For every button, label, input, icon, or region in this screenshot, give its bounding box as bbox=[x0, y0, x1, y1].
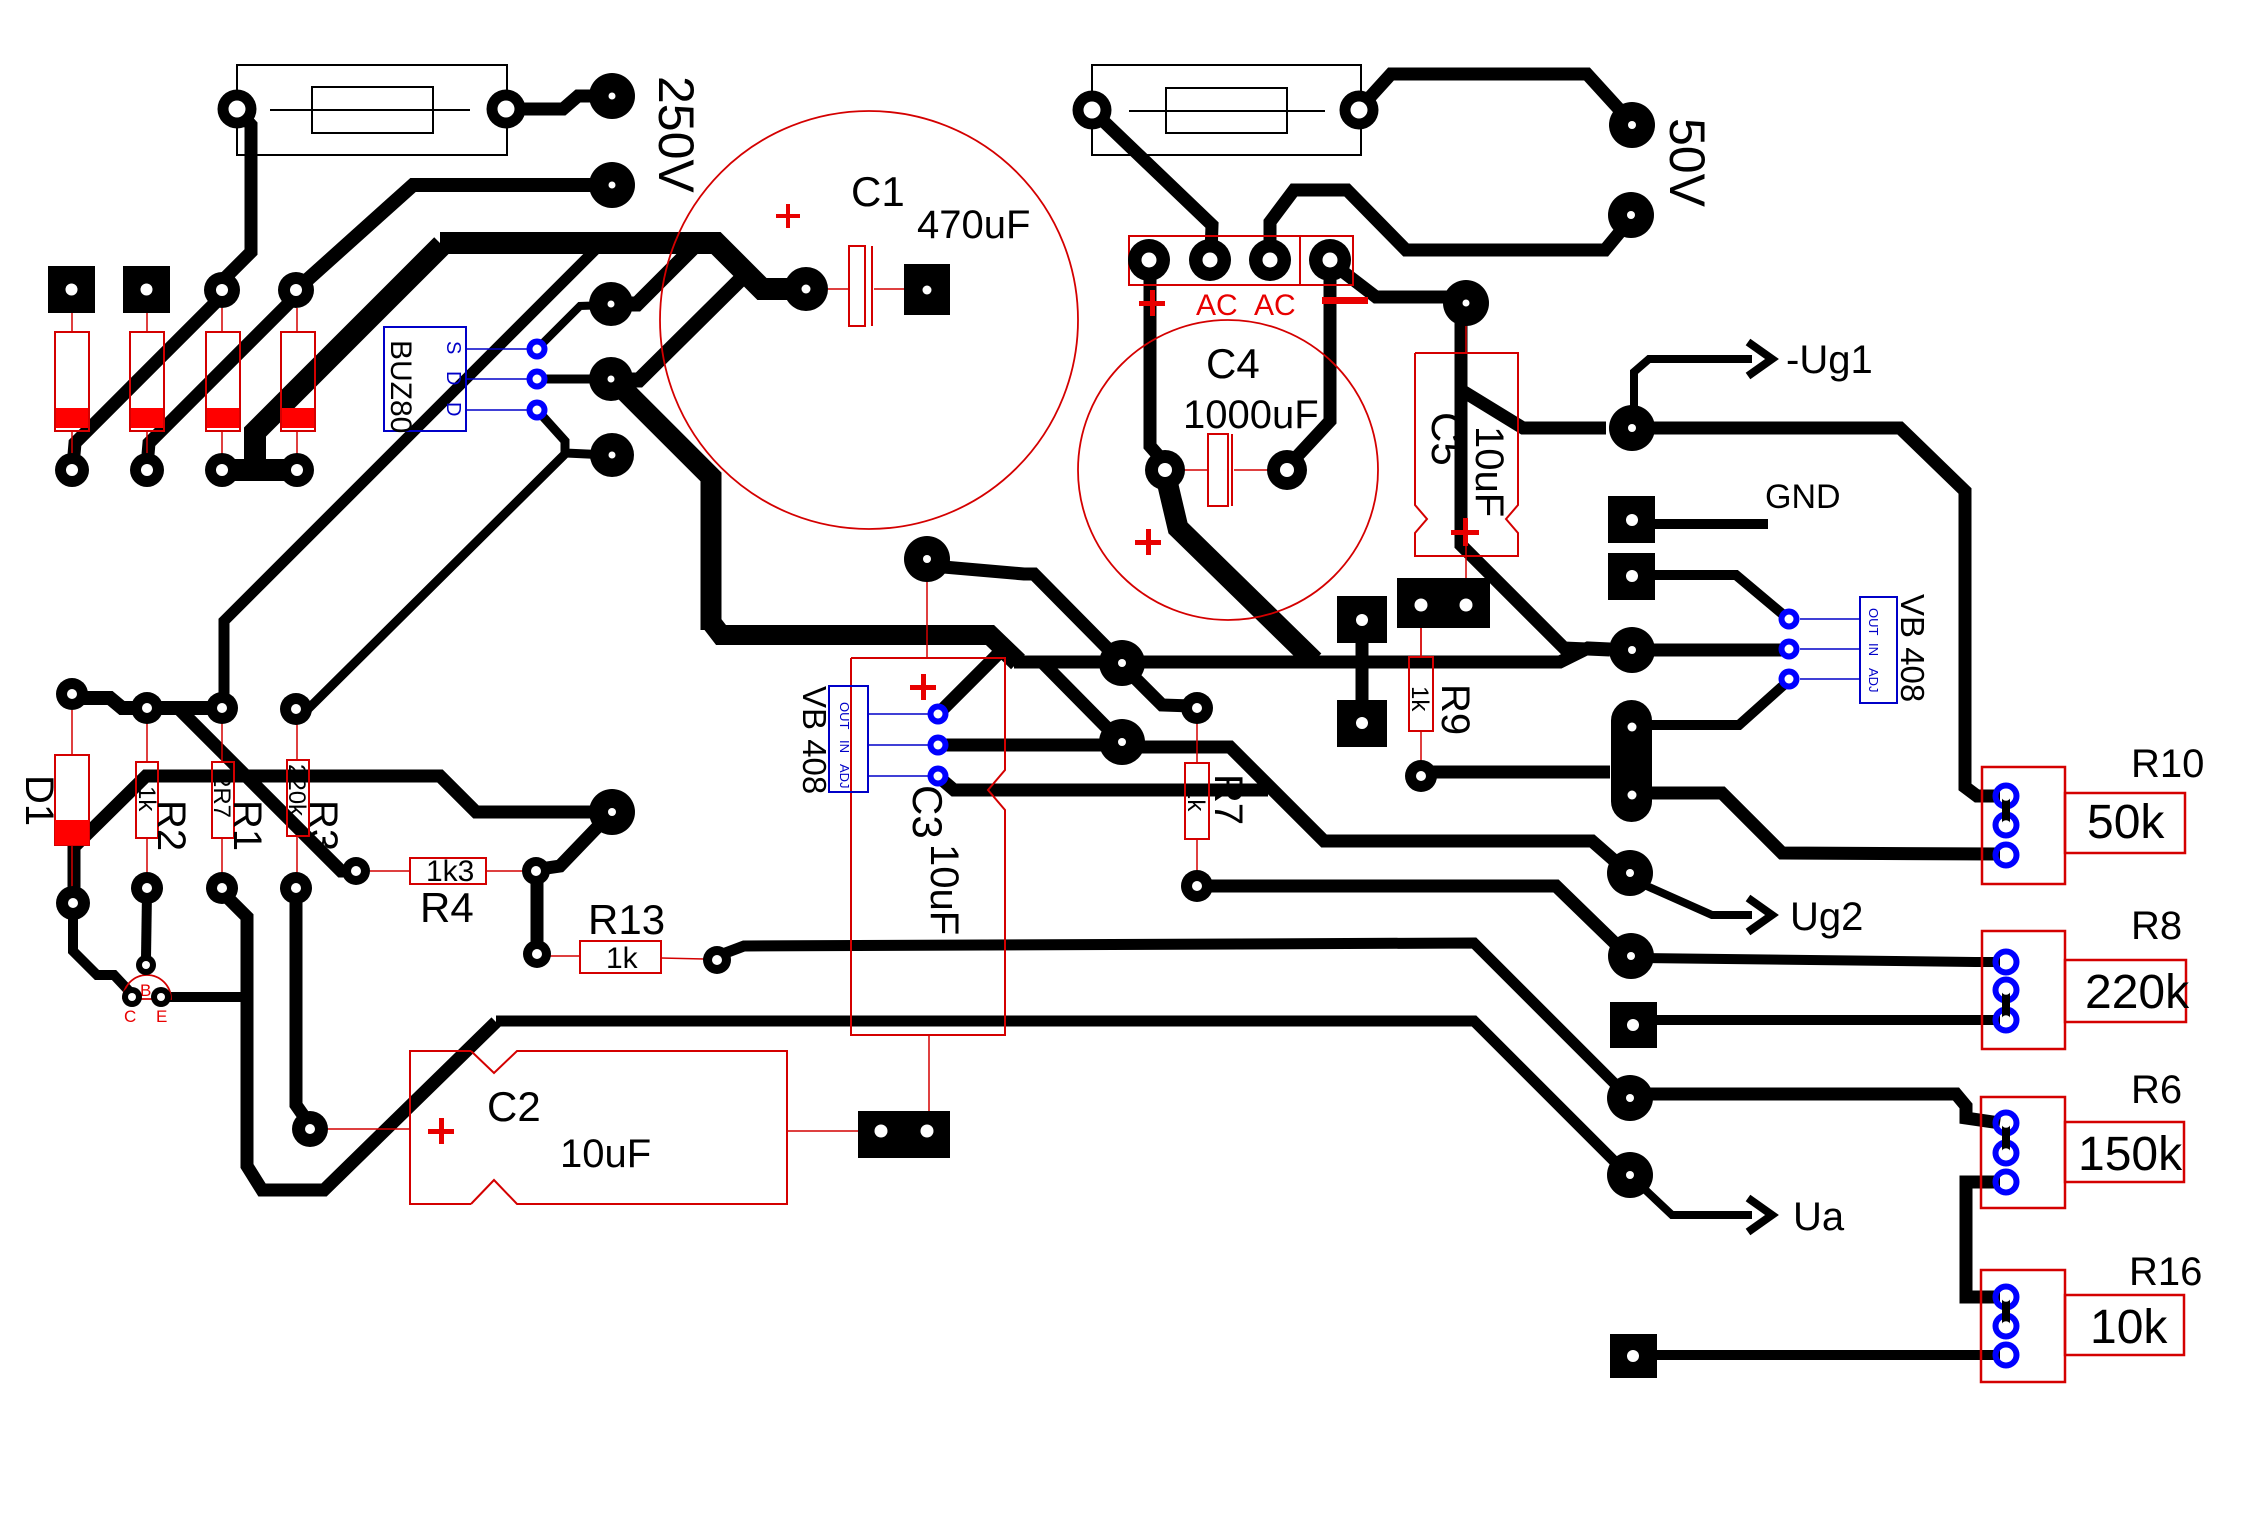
svg-text:R16: R16 bbox=[2129, 1250, 2202, 1294]
pad 1630,1098 bbox=[1607, 1075, 1653, 1121]
ring pad 296,290 bbox=[278, 272, 314, 308]
R8 link ring2-ring3 bbox=[2002, 990, 2010, 1020]
resistor R13 outline bbox=[580, 941, 661, 973]
pad R3 top bbox=[280, 693, 312, 725]
R10 rings bbox=[1996, 786, 2017, 807]
capacitor C2 outline bbox=[410, 1051, 471, 1204]
VB408 right ring OUT bbox=[1779, 609, 1800, 630]
wire pad 612,185 to ring 296,290 bbox=[296, 185, 606, 290]
wire R4 left diagonal to pad row bbox=[180, 710, 352, 871]
svg-text:S: S bbox=[442, 341, 464, 354]
VB408 right box bbox=[1860, 597, 1897, 703]
plus C5 bbox=[1451, 518, 1479, 546]
wire GND stub bbox=[1655, 519, 1768, 529]
wire pad 1466,303 down to pad 1632,650 chain bbox=[1461, 322, 1610, 650]
pad row D1 top bbox=[56, 678, 88, 710]
svg-text:C4: C4 bbox=[1206, 340, 1260, 387]
svg-text:AC: AC bbox=[1196, 289, 1238, 322]
svg-text:1k: 1k bbox=[1406, 686, 1433, 712]
pad 1122,663 bbox=[1099, 640, 1145, 686]
wire AC pad2 from fuse2 bbox=[1097, 115, 1212, 254]
wire ADJ stub to Ug2 diagonal bbox=[940, 778, 1268, 790]
square pad S2 bbox=[123, 266, 170, 313]
svg-text:R4: R4 bbox=[420, 884, 474, 931]
svg-text:Ua: Ua bbox=[1793, 1195, 1845, 1239]
svg-text:250V: 250V bbox=[648, 76, 704, 193]
R4 left pad bbox=[342, 857, 370, 885]
R8 value box bbox=[2065, 960, 2186, 1022]
resistor R7 outline bbox=[1185, 763, 1209, 839]
pad 1631,956 bbox=[1608, 933, 1654, 979]
BUZ80 ring D bbox=[527, 369, 548, 390]
capacitor C1 symbol bbox=[849, 246, 865, 326]
R10 link ring1-ring2 bbox=[2002, 796, 2010, 825]
wire transistor E to R1 vertical bbox=[165, 992, 244, 1002]
GND square 1 bbox=[1608, 496, 1655, 543]
C1 right square pad bbox=[904, 264, 950, 315]
pad 250V top bbox=[589, 73, 635, 119]
wire BUZ80 G stub bbox=[538, 411, 608, 455]
svg-text:IN: IN bbox=[837, 740, 852, 753]
fuse F2 right ring pad bbox=[1340, 91, 1379, 130]
pad 612,812 bbox=[589, 789, 635, 835]
pad 250V second bbox=[589, 162, 635, 208]
wire R4 right to R13 left bbox=[531, 878, 544, 946]
R16 body box bbox=[1981, 1270, 2065, 1382]
pad drain net 611,304 bbox=[589, 282, 633, 326]
R16 rings bbox=[1996, 1287, 2017, 1308]
wire AC pad4 to C4 right bbox=[1290, 266, 1330, 464]
wire branch to -Ug1 pad 1632,428 bbox=[1461, 390, 1606, 428]
svg-text:IN: IN bbox=[1866, 643, 1881, 656]
capacitor C5 outline bbox=[1415, 353, 1518, 556]
pad 1632,650 bbox=[1609, 627, 1655, 673]
AC pad 1 bbox=[1128, 239, 1170, 281]
resistor bottom pad 147,470 bbox=[130, 453, 164, 487]
diode D1 outline bbox=[55, 755, 89, 845]
pad R1 top bbox=[206, 692, 238, 724]
capacitor C4 outline circle bbox=[1078, 320, 1378, 620]
wire Ua arrow bbox=[1638, 1183, 1752, 1215]
R6 value box bbox=[2065, 1122, 2184, 1182]
BUZ80 pin lines bbox=[466, 349, 527, 410]
svg-text:220k: 220k bbox=[283, 764, 310, 817]
wire pad 1632,428 to R10 ring1 bbox=[1638, 428, 2000, 796]
svg-text:1k: 1k bbox=[1182, 786, 1209, 812]
wire resistor bar pads 222-297 bbox=[222, 459, 297, 481]
svg-text:OUT: OUT bbox=[1866, 608, 1881, 636]
resistor bottom pad 222,470 bbox=[205, 453, 239, 487]
wire Ug2 chain pad 1122,745 to pad 1630,873 bbox=[1126, 747, 1624, 869]
resistor R2 outline bbox=[136, 762, 158, 838]
resistor R1 outline bbox=[212, 762, 234, 838]
fuse F1 outline bbox=[237, 65, 507, 155]
wire oval top to ADJ ring bbox=[1638, 683, 1786, 725]
wire thick segment of vertical x711 bbox=[616, 382, 711, 630]
wire R9 pad to oval bbox=[1425, 766, 1610, 779]
C4 right pad bbox=[1267, 450, 1307, 490]
svg-text:C2: C2 bbox=[487, 1083, 541, 1130]
R16 value box bbox=[2065, 1295, 2184, 1355]
wire transistor B vertical bbox=[146, 892, 147, 958]
wire ring 296,290 to resistor pad 147,470 bbox=[147, 292, 296, 466]
GND square 2 bbox=[1608, 553, 1655, 600]
wire fuse1 left pad to ring pad bbox=[222, 113, 251, 292]
svg-text:C5: C5 bbox=[1423, 412, 1470, 466]
wire fuse2 right to 50V pad1 bbox=[1361, 74, 1628, 119]
capacitor C3 outline bbox=[851, 658, 1005, 1035]
svg-text:1k3: 1k3 bbox=[426, 855, 474, 888]
wire Ua horizontal to pad 1630,1175 bbox=[496, 1021, 1626, 1173]
R9 square pad lower bbox=[1337, 700, 1387, 747]
wire branch V to pad 611,379 bbox=[613, 272, 748, 380]
capacitor C1 outline circle bbox=[660, 111, 1078, 529]
wire R13 right to pad 1630,1098 bbox=[720, 943, 1626, 1095]
R7 top pad bbox=[1181, 692, 1213, 724]
svg-text:Ug2: Ug2 bbox=[1790, 895, 1863, 939]
wire GND square2 to VB408-right OUT bbox=[1655, 575, 1786, 617]
svg-text:E: E bbox=[156, 1007, 167, 1026]
wire IN ring horizontal to pad 1122,745 bbox=[941, 739, 1114, 752]
pad R2 top bbox=[131, 692, 163, 724]
wire R1 bottom U-shape bbox=[222, 892, 496, 1190]
capacitor C4 symbol bbox=[1208, 434, 1228, 506]
arrowhead -Ug1 bbox=[1748, 342, 1772, 376]
VB408 right ring ADJ bbox=[1779, 669, 1800, 690]
resistor RX1 outline bbox=[55, 332, 89, 431]
svg-text:1k: 1k bbox=[606, 942, 639, 975]
pad 611,379 bbox=[589, 357, 633, 401]
pad 1122,742 bbox=[1099, 719, 1145, 765]
svg-text:10uF: 10uF bbox=[1467, 426, 1511, 517]
wire R16 square to ring3 bbox=[1657, 1350, 2000, 1360]
resistor R4 outline bbox=[410, 858, 486, 884]
svg-text:R7: R7 bbox=[1206, 774, 1250, 825]
svg-text:10uF: 10uF bbox=[922, 844, 966, 935]
connector AC outline bbox=[1129, 236, 1353, 285]
R7 bottom pad bbox=[1181, 870, 1213, 902]
plus AC connector bbox=[1139, 290, 1165, 316]
R16 link ring1-ring2 bbox=[2002, 1297, 2010, 1326]
wire D1 pad to transistor C bbox=[73, 906, 129, 991]
R16 square pad bbox=[1610, 1334, 1657, 1378]
wire oval bottom to R10 ring3 bbox=[1652, 793, 2000, 854]
R10 value box bbox=[2065, 793, 2185, 853]
minus AC connector bbox=[1322, 297, 1368, 304]
VB408 left ring OUT bbox=[928, 704, 949, 725]
fuse F2 left ring pad bbox=[1073, 91, 1112, 130]
svg-text:R10: R10 bbox=[2131, 742, 2204, 786]
wire branch y662 to pad 1122,742 bbox=[1042, 662, 1120, 741]
wire R7 bottom to pad 1631,956 bbox=[1200, 886, 1625, 953]
R13 left pad bbox=[523, 940, 551, 968]
fuse F2 outline bbox=[1092, 65, 1361, 155]
svg-text:GND: GND bbox=[1765, 478, 1841, 516]
wire Dii BUZ80 G junction to R3 top bbox=[296, 452, 567, 717]
wire fuse1 right pad to 250V pad bbox=[506, 96, 606, 109]
svg-text:50V: 50V bbox=[1659, 118, 1715, 208]
C4 left pad bbox=[1145, 450, 1185, 490]
BUZ80 U2 box bbox=[384, 327, 466, 431]
R9 pad bbox=[1405, 760, 1437, 792]
svg-text:C1: C1 bbox=[851, 168, 905, 215]
pad -Ug1 1632,428 bbox=[1609, 405, 1655, 451]
VB408 left ring ADJ bbox=[928, 766, 949, 787]
plus C3 bbox=[910, 674, 936, 700]
wire Di from T4 to R1 top bbox=[224, 245, 600, 700]
svg-text:VB 408: VB 408 bbox=[796, 686, 833, 794]
arrowhead Ug2 bbox=[1748, 898, 1772, 932]
R6 link ring1-ring2 bbox=[2002, 1123, 2010, 1153]
svg-text:220k: 220k bbox=[2085, 966, 2190, 1019]
pad C5 top 1466,303 bbox=[1443, 280, 1489, 326]
BUZ80 ring S bbox=[527, 339, 548, 360]
svg-text:D1: D1 bbox=[17, 775, 61, 826]
square pad S1 bbox=[48, 266, 95, 313]
pad Ug2 1630,873 bbox=[1607, 850, 1653, 896]
plus C2 bbox=[428, 1118, 454, 1144]
R4 right pad bbox=[522, 857, 550, 885]
ring pad 222,290 bbox=[204, 272, 240, 308]
R9 header rect bbox=[1397, 578, 1490, 628]
wire R8 square to ring3 bbox=[1657, 1015, 2000, 1025]
plus C4 circle bbox=[1135, 529, 1161, 555]
pad 927,559 bbox=[904, 536, 950, 582]
R8 square pad bbox=[1610, 1002, 1657, 1048]
C1 left pad bbox=[784, 267, 828, 311]
pad Ua 1630,1175 bbox=[1607, 1152, 1653, 1198]
svg-text:R13: R13 bbox=[588, 896, 665, 943]
svg-text:1000uF: 1000uF bbox=[1183, 393, 1319, 437]
transistor pad E bbox=[151, 987, 171, 1007]
wire pad 612,812 to R4 right pad bbox=[540, 814, 610, 869]
AC pad 2 bbox=[1189, 239, 1231, 281]
resistor RX3 outline bbox=[206, 332, 240, 431]
resistor RX4 outline bbox=[281, 332, 315, 431]
svg-text:R8: R8 bbox=[2131, 904, 2182, 948]
BUZ80 pin labels bbox=[442, 341, 464, 416]
transistor pad C bbox=[122, 987, 142, 1007]
wire R6 ring3 to R16 ring1 bbox=[1966, 1182, 2000, 1297]
svg-text:2R7: 2R7 bbox=[208, 774, 235, 818]
wire pad 1630,1098 to R6 ring1 bbox=[1637, 1094, 2000, 1123]
wire BUZ80 S stub bbox=[537, 305, 608, 349]
transistor pad B bbox=[136, 955, 156, 975]
C2 header rect bbox=[858, 1111, 950, 1158]
pad R3 bottom bbox=[280, 872, 312, 904]
svg-text:1k: 1k bbox=[133, 786, 160, 812]
wire T4 thick horizontal and Y to C1 left pad bbox=[440, 243, 800, 289]
pad 50V second bbox=[1608, 192, 1654, 238]
R9 square pad upper bbox=[1337, 596, 1387, 643]
wire T4 diagonal to resistor bar bbox=[255, 245, 442, 462]
VB408 right ring IN bbox=[1779, 639, 1800, 660]
wire pad 927,559 to pad 1122,663 bbox=[932, 566, 1118, 659]
wire squares link R9 area bbox=[1356, 620, 1369, 723]
R8 rings bbox=[1996, 952, 2017, 973]
svg-text:-Ug1: -Ug1 bbox=[1786, 338, 1873, 382]
wire D1 bottom up to horizontal y777 to pad 612,812 bbox=[74, 776, 606, 898]
svg-text:10k: 10k bbox=[2090, 1301, 2168, 1354]
svg-text:150k: 150k bbox=[2078, 1128, 2183, 1181]
wire pad 1632,650 to IN ring bbox=[1638, 644, 1783, 657]
C2 plus pad bbox=[292, 1111, 328, 1147]
wire R3 bottom to C2 plus pad bbox=[296, 892, 310, 1125]
fuse F1 right ring pad bbox=[487, 90, 526, 129]
wire BUZ80 D stub bbox=[537, 375, 608, 384]
svg-text:ADJ: ADJ bbox=[837, 764, 852, 789]
resistor bottom pad 297,470 bbox=[280, 453, 314, 487]
svg-text:50k: 50k bbox=[2087, 796, 2165, 849]
wire OUT diagonal branch to VB408-left bbox=[940, 647, 1005, 712]
R8 body box bbox=[1982, 931, 2065, 1049]
wire AC pad4 to pad 1466,303 bbox=[1333, 264, 1448, 297]
plus C1 bbox=[776, 204, 800, 228]
svg-text:VB 408: VB 408 bbox=[1894, 594, 1931, 702]
svg-text:10uF: 10uF bbox=[560, 1132, 651, 1176]
svg-text:470uF: 470uF bbox=[917, 203, 1030, 247]
resistor bottom pad 72,470 bbox=[55, 453, 89, 487]
svg-text:R9: R9 bbox=[1433, 684, 1477, 735]
R6 rings bbox=[1996, 1113, 2017, 1134]
pad R2 bottom bbox=[131, 872, 163, 904]
VB408 left box bbox=[829, 686, 868, 792]
svg-text:BUZ80: BUZ80 bbox=[384, 340, 417, 433]
svg-text:R6: R6 bbox=[2131, 1068, 2182, 1112]
wire AC pad1 to C4 left bbox=[1150, 266, 1164, 462]
resistor R9 outline bbox=[1409, 657, 1433, 731]
pad D1 bottom bbox=[56, 886, 90, 920]
wire AC pad3 weave to 50V pad2 bbox=[1270, 190, 1629, 254]
wire -Ug1 arrow bbox=[1634, 359, 1752, 408]
transistor outline bbox=[123, 975, 171, 999]
AC pad 4 bbox=[1309, 239, 1351, 281]
wire pad 1631,956 to R8 ring1 bbox=[1637, 958, 2000, 962]
resistor R3 outline bbox=[287, 760, 309, 836]
svg-text:C: C bbox=[124, 1007, 136, 1026]
R10 body box bbox=[1982, 767, 2065, 884]
wire C4 left pad diagonal to H2 bbox=[1166, 477, 1314, 661]
redraw ring holes over links bbox=[2001, 791, 2011, 1360]
R6 body box bbox=[1981, 1097, 2065, 1208]
red plus marks and labels bbox=[428, 204, 1479, 1144]
BUZ80 ring G bbox=[527, 400, 548, 421]
pad R1 bottom bbox=[206, 872, 238, 904]
AC pad 3 bbox=[1249, 239, 1291, 281]
pad 612,455 bbox=[590, 433, 634, 477]
wire branch pad 611,304 to T4 bbox=[613, 246, 695, 304]
wire Ug2 arrow bbox=[1640, 883, 1752, 915]
svg-text:OUT: OUT bbox=[837, 702, 852, 730]
wire ring 222,290 to resistor pad 72,470 bbox=[73, 292, 222, 466]
svg-text:ADJ: ADJ bbox=[1866, 668, 1881, 693]
svg-text:C3: C3 bbox=[904, 785, 951, 839]
R13 right pad bbox=[703, 946, 731, 974]
wire pad row D1 R2 R1 bbox=[72, 698, 222, 708]
svg-text:D: D bbox=[442, 402, 464, 416]
fuse F1 left ring pad bbox=[218, 90, 257, 129]
svg-text:D: D bbox=[442, 371, 464, 385]
wire big vertical from pad 611,379 down and right to pad 1632,650 bbox=[1014, 648, 1610, 662]
VB408 left ring IN bbox=[928, 735, 949, 756]
wire pad 1122,663 to R7 top bbox=[1124, 667, 1192, 706]
resistor RX2 outline bbox=[130, 332, 164, 431]
wire H1 from R1 corner to pad 1122,742 bbox=[711, 622, 1018, 662]
pad 50V top bbox=[1609, 102, 1655, 148]
oval pad bbox=[1611, 700, 1652, 822]
arrowhead Ua bbox=[1748, 1198, 1772, 1232]
svg-text:AC: AC bbox=[1254, 289, 1296, 322]
